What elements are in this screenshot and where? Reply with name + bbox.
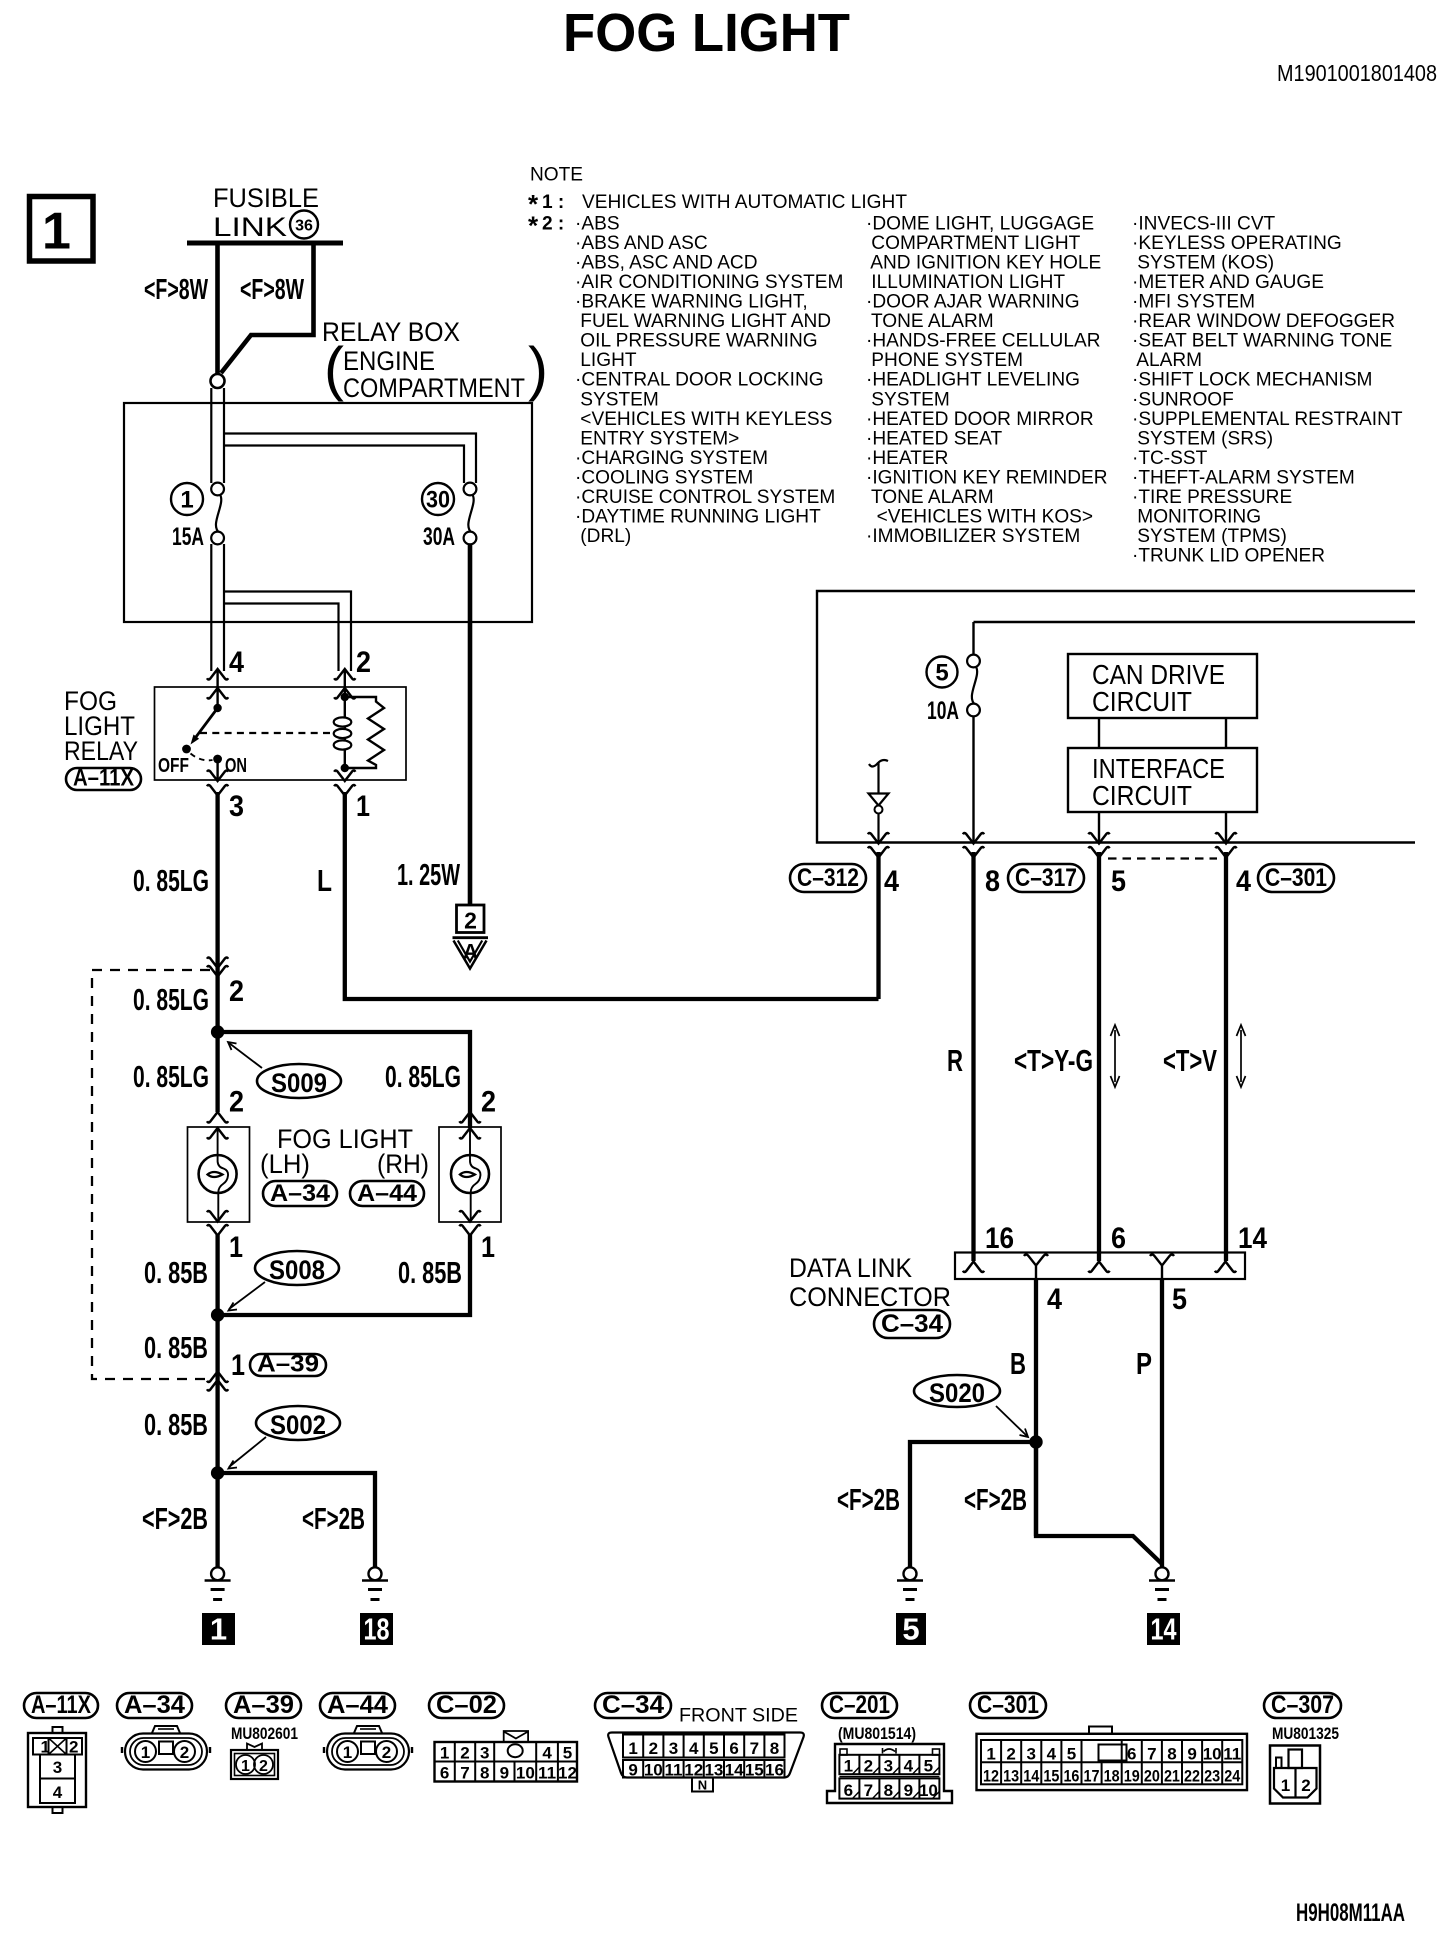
svg-text:·HEATED DOOR MIRROR: ·HEATED DOOR MIRROR xyxy=(866,409,1094,430)
svg-text:LIGHT: LIGHT xyxy=(575,350,637,371)
svg-text:·CHARGING SYSTEM: ·CHARGING SYSTEM xyxy=(575,448,768,469)
DLC terminal 14 xyxy=(1215,1262,1236,1273)
wire V xyxy=(1224,852,1228,1261)
svg-text:1: 1 xyxy=(241,1758,250,1775)
connector pictogram A-39 xyxy=(231,1744,278,1780)
data link connector bar xyxy=(955,1253,1245,1280)
svg-text:COMPARTMENT LIGHT: COMPARTMENT LIGHT xyxy=(866,233,1081,254)
svg-text:VEHICLES WITH AUTOMATIC LIGHT: VEHICLES WITH AUTOMATIC LIGHT xyxy=(582,192,907,213)
svg-text:3: 3 xyxy=(884,1757,893,1776)
circled 30 fuse number xyxy=(422,483,454,515)
svg-text:·COOLING SYSTEM: ·COOLING SYSTEM xyxy=(575,467,753,488)
svg-text:4: 4 xyxy=(689,1739,699,1758)
wire to ground 1 xyxy=(215,1473,219,1567)
svg-text:MU801325: MU801325 xyxy=(1272,1724,1339,1743)
connector circle at relay box entry xyxy=(211,374,225,388)
svg-text:·ABS AND ASC: ·ABS AND ASC xyxy=(575,233,708,254)
svg-text:<T>Y-G: <T>Y-G xyxy=(1014,1043,1093,1078)
svg-text:·DAYTIME RUNNING LIGHT: ·DAYTIME RUNNING LIGHT xyxy=(575,506,821,527)
svg-text:S009: S009 xyxy=(271,1068,327,1098)
note *2 marker xyxy=(528,211,564,241)
circled 1 fuse number xyxy=(171,483,203,515)
svg-text:2: 2 xyxy=(69,1738,78,1757)
svg-text:0. 85B: 0. 85B xyxy=(398,1255,462,1290)
relay coil xyxy=(334,693,352,772)
svg-text:4: 4 xyxy=(53,1783,63,1802)
wire branch to ground 5 xyxy=(910,1442,1036,1567)
svg-text:1: 1 xyxy=(41,1738,50,1757)
svg-text:8: 8 xyxy=(1167,1745,1176,1764)
svg-text:8: 8 xyxy=(770,1739,779,1758)
svg-text:<F>8W: <F>8W xyxy=(240,274,304,306)
svg-text:17: 17 xyxy=(1084,1767,1100,1786)
svg-text:15: 15 xyxy=(745,1761,764,1780)
svg-text:0. 85LG: 0. 85LG xyxy=(133,863,209,898)
svg-text:2: 2 xyxy=(1006,1745,1015,1764)
svg-text:8: 8 xyxy=(985,865,1000,898)
svg-text:9: 9 xyxy=(628,1761,637,1780)
svg-text:*: * xyxy=(528,211,539,241)
connector label C-317 xyxy=(1008,864,1084,892)
note list column 3 xyxy=(1132,214,1403,567)
ground number 5 xyxy=(896,1612,926,1647)
fusible link label xyxy=(213,183,319,242)
svg-text:21: 21 xyxy=(1164,1767,1180,1786)
svg-text:1: 1 xyxy=(42,203,71,261)
svg-text:A–44: A–44 xyxy=(327,1691,388,1719)
wire feed to LH fog light xyxy=(215,1032,219,1112)
svg-text:·SUPPLEMENTAL RESTRAINT: ·SUPPLEMENTAL RESTRAINT xyxy=(1132,409,1403,430)
svg-text:A–44: A–44 xyxy=(357,1180,418,1207)
svg-text:1. 25W: 1. 25W xyxy=(397,857,460,892)
dashed harness boundary A-39 xyxy=(92,970,210,1379)
svg-text:<VEHICLES WITH KOS>: <VEHICLES WITH KOS> xyxy=(866,506,1093,527)
splice S008 ellipse xyxy=(255,1251,339,1285)
svg-text:·INVECS-III CVT: ·INVECS-III CVT xyxy=(1132,214,1276,235)
svg-text:ENTRY SYSTEM>: ENTRY SYSTEM> xyxy=(575,428,739,449)
svg-text:8: 8 xyxy=(480,1764,489,1783)
svg-text:<F>2B: <F>2B xyxy=(142,1501,208,1536)
fusible link bus bar xyxy=(187,241,343,246)
svg-text:0. 85LG: 0. 85LG xyxy=(133,1059,209,1094)
svg-text:6: 6 xyxy=(1111,1222,1126,1255)
svg-text:14: 14 xyxy=(725,1761,744,1780)
splice S009 arrow xyxy=(228,1042,262,1068)
noise suppressor symbol at C-312 xyxy=(869,760,889,842)
RH fog light output chevrons xyxy=(460,1211,481,1236)
svg-text:1: 1 xyxy=(440,1744,449,1763)
note list column 2 xyxy=(866,214,1108,547)
svg-text:ON: ON xyxy=(225,755,247,777)
svg-text:C–301: C–301 xyxy=(977,1691,1039,1719)
svg-text:C–307: C–307 xyxy=(1271,1691,1334,1719)
svg-text:B: B xyxy=(1010,1346,1026,1381)
circled 36 xyxy=(290,211,318,239)
svg-text:4: 4 xyxy=(904,1757,914,1776)
svg-text:N: N xyxy=(698,1778,707,1793)
svg-text:A–34: A–34 xyxy=(124,1691,185,1719)
connector label A-34 bottom xyxy=(117,1693,192,1718)
svg-text:S020: S020 xyxy=(929,1378,985,1408)
svg-text:2: 2 xyxy=(464,908,477,934)
wire from fuse 30 down to page-2 marker xyxy=(468,544,473,905)
ground symbol 5 xyxy=(897,1567,923,1599)
svg-text:4: 4 xyxy=(1047,1745,1057,1764)
ground number 14 xyxy=(1147,1612,1180,1647)
fuse 30 symbol xyxy=(464,483,477,545)
svg-text:16: 16 xyxy=(1063,1767,1079,1786)
svg-text:RELAY: RELAY xyxy=(64,736,138,766)
svg-text:18: 18 xyxy=(364,1612,390,1647)
svg-text:ALARM: ALARM xyxy=(1132,350,1202,371)
svg-text:14: 14 xyxy=(1151,1612,1178,1647)
svg-text:MU802601: MU802601 xyxy=(231,1724,298,1743)
svg-text:1: 1 xyxy=(356,790,370,823)
wire (outlined) from fusible link to fuse 1 xyxy=(211,388,224,671)
svg-text:2: 2 xyxy=(356,646,371,679)
svg-text:15: 15 xyxy=(1043,1767,1059,1786)
svg-text:·METER AND GAUGE: ·METER AND GAUGE xyxy=(1132,272,1324,293)
circled 5 fuse number xyxy=(927,657,958,688)
svg-text:1: 1 xyxy=(180,487,193,514)
ground symbol 18 xyxy=(362,1567,388,1599)
relay switch xyxy=(182,704,222,780)
svg-text:<T>V: <T>V xyxy=(1163,1043,1217,1078)
svg-text:2: 2 xyxy=(1301,1776,1310,1795)
C-312 pin 4 chevrons xyxy=(868,833,889,858)
svg-text:4: 4 xyxy=(1236,865,1251,898)
svg-text:7: 7 xyxy=(1147,1745,1156,1764)
svg-text:·AIR CONDITIONING SYSTEM: ·AIR CONDITIONING SYSTEM xyxy=(575,272,843,293)
interface circuit box xyxy=(1068,748,1257,812)
svg-text:1 :: 1 : xyxy=(542,192,564,213)
page-2 triangle A marker xyxy=(453,938,489,969)
svg-text:FUEL WARNING LIGHT AND: FUEL WARNING LIGHT AND xyxy=(575,311,831,332)
svg-text:·TRUNK LID OPENER: ·TRUNK LID OPENER xyxy=(1132,546,1325,567)
svg-text:SYSTEM (SRS): SYSTEM (SRS) xyxy=(1132,428,1273,449)
wire feed to RH fog light xyxy=(218,1032,470,1128)
svg-text:·TC-SST: ·TC-SST xyxy=(1132,448,1208,469)
svg-text:18: 18 xyxy=(1104,1767,1120,1786)
svg-text:22: 22 xyxy=(1184,1767,1200,1786)
LH fog light input chevrons xyxy=(207,1112,228,1139)
svg-text:L: L xyxy=(317,863,332,898)
svg-text:AND IGNITION KEY HOLE: AND IGNITION KEY HOLE xyxy=(866,253,1101,274)
svg-text:C–312: C–312 xyxy=(797,864,859,892)
svg-text:1: 1 xyxy=(229,1231,243,1264)
connector A-39 pass-through upper xyxy=(207,957,228,976)
svg-text:6: 6 xyxy=(844,1781,853,1800)
connector label A-44 bottom xyxy=(320,1693,395,1718)
wire B from DLC pin 4 xyxy=(1034,1279,1038,1536)
connector label A-39 bottom xyxy=(226,1693,301,1718)
svg-text:5: 5 xyxy=(1172,1283,1187,1316)
svg-text:10: 10 xyxy=(516,1764,535,1783)
connector pictogram C-02 xyxy=(435,1731,578,1783)
svg-text:0. 85B: 0. 85B xyxy=(144,1407,208,1442)
svg-text:A: A xyxy=(463,941,478,964)
svg-text:H9H08M11AA: H9H08M11AA xyxy=(1296,1899,1405,1927)
svg-text:(RH): (RH) xyxy=(377,1149,429,1179)
splice S020 arrow xyxy=(996,1406,1028,1437)
svg-text:C–02: C–02 xyxy=(436,1691,497,1719)
svg-text:10: 10 xyxy=(1203,1745,1222,1764)
relay box label xyxy=(322,317,548,403)
splice S009 ellipse xyxy=(257,1064,341,1098)
svg-text:A–39: A–39 xyxy=(257,1350,319,1377)
RH fog light bulb xyxy=(439,1127,501,1222)
svg-text:0. 85LG: 0. 85LG xyxy=(385,1059,461,1094)
svg-text:MONITORING: MONITORING xyxy=(1132,506,1261,527)
svg-text:·IGNITION KEY REMINDER: ·IGNITION KEY REMINDER xyxy=(866,467,1108,488)
connector label C-307 bottom xyxy=(1264,1693,1341,1718)
svg-text:(MU801514): (MU801514) xyxy=(838,1724,916,1743)
relay pin 1 terminal chevrons xyxy=(334,770,355,795)
svg-text:30A: 30A xyxy=(423,523,455,551)
svg-text:<F>8W: <F>8W xyxy=(144,274,208,306)
connector A-39 pass-through lower xyxy=(207,1372,228,1391)
svg-text:1: 1 xyxy=(481,1231,495,1264)
svg-text:2: 2 xyxy=(382,1743,391,1762)
DLC terminal 4 xyxy=(1024,1255,1048,1280)
svg-text:ENGINE: ENGINE xyxy=(343,346,435,376)
svg-text:20: 20 xyxy=(1144,1767,1160,1786)
relay resistor xyxy=(345,697,384,768)
svg-text:TONE ALARM: TONE ALARM xyxy=(866,311,994,332)
svg-text:5: 5 xyxy=(924,1757,933,1776)
svg-text:6: 6 xyxy=(729,1739,738,1758)
svg-text:(DRL): (DRL) xyxy=(575,526,631,547)
svg-text:7: 7 xyxy=(864,1781,873,1800)
interface output wire right xyxy=(1225,812,1227,842)
svg-text:<F>2B: <F>2B xyxy=(837,1482,900,1517)
connector label C-201 bottom xyxy=(822,1693,897,1718)
connector label A-11X bottom xyxy=(24,1693,98,1718)
connector label A-34 xyxy=(263,1181,337,1206)
svg-text:A–39: A–39 xyxy=(233,1691,294,1719)
svg-text:7: 7 xyxy=(460,1764,469,1783)
svg-text:24: 24 xyxy=(1224,1767,1240,1786)
wire 0.85LG from relay pin 3 xyxy=(215,792,219,1032)
svg-text:2: 2 xyxy=(229,1086,244,1119)
DLC terminal 6 xyxy=(1089,1262,1110,1273)
svg-text:R: R xyxy=(947,1043,963,1078)
svg-text:SYSTEM: SYSTEM xyxy=(575,389,659,410)
svg-text:SYSTEM: SYSTEM xyxy=(866,389,950,410)
svg-text:COMPARTMENT: COMPARTMENT xyxy=(343,373,525,403)
C-317 pin 8 chevrons xyxy=(963,833,984,858)
CAN drive circuit box xyxy=(1068,654,1257,718)
svg-text:5: 5 xyxy=(935,660,948,687)
svg-text:): ) xyxy=(528,335,548,402)
connector label C-301 xyxy=(1258,864,1334,892)
connector label C-312 xyxy=(790,864,866,892)
svg-text:2: 2 xyxy=(481,1086,496,1119)
svg-text:1: 1 xyxy=(1281,1776,1290,1795)
wire (outlined) branch to fuse 30 xyxy=(224,434,476,484)
LH fog light bulb xyxy=(188,1127,250,1222)
svg-text:·TIRE PRESSURE: ·TIRE PRESSURE xyxy=(1132,487,1292,508)
splice S020 ellipse xyxy=(914,1375,1000,1408)
svg-text:(LH): (LH) xyxy=(260,1149,310,1179)
wire Y-G xyxy=(1097,852,1101,1261)
fuse 1 symbol xyxy=(211,483,224,545)
svg-text:·HEATER: ·HEATER xyxy=(866,448,948,469)
svg-text:2: 2 xyxy=(259,1758,268,1775)
svg-text:11: 11 xyxy=(1223,1745,1241,1764)
svg-text:3: 3 xyxy=(480,1744,489,1763)
junction S020 dot xyxy=(1029,1435,1042,1448)
svg-text:C–201: C–201 xyxy=(829,1691,890,1719)
ground number 1 xyxy=(202,1612,235,1647)
svg-text:C–34: C–34 xyxy=(602,1691,664,1719)
svg-text:·SEAT BELT WARNING TONE: ·SEAT BELT WARNING TONE xyxy=(1132,331,1392,352)
connector pictogram A-34 xyxy=(122,1726,210,1770)
svg-text:·DOME LIGHT, LUGGAGE: ·DOME LIGHT, LUGGAGE xyxy=(866,214,1094,235)
svg-text:S008: S008 xyxy=(269,1255,325,1285)
wire L from relay pin 1 xyxy=(345,792,879,999)
svg-text:10A: 10A xyxy=(927,697,959,725)
connector label C-34 xyxy=(874,1310,950,1338)
svg-text:1: 1 xyxy=(231,1349,245,1382)
svg-text:7: 7 xyxy=(750,1739,759,1758)
svg-text:SYSTEM (KOS): SYSTEM (KOS) xyxy=(1132,253,1274,274)
ground number 18 xyxy=(360,1612,393,1647)
svg-text:·REAR WINDOW DEFOGGER: ·REAR WINDOW DEFOGGER xyxy=(1132,311,1395,332)
svg-text:12: 12 xyxy=(558,1764,577,1783)
junction S002 dot xyxy=(211,1466,224,1479)
splice S002 ellipse xyxy=(256,1406,340,1440)
page reference box 1 xyxy=(30,197,94,262)
RH fog light input chevrons xyxy=(460,1112,481,1139)
svg-text:4: 4 xyxy=(542,1744,552,1763)
svg-text:·HANDS-FREE CELLULAR: ·HANDS-FREE CELLULAR xyxy=(866,331,1100,352)
svg-text:0. 85B: 0. 85B xyxy=(144,1255,208,1290)
svg-text:LINK: LINK xyxy=(213,212,287,242)
svg-text:PHONE SYSTEM: PHONE SYSTEM xyxy=(866,350,1023,371)
svg-text:11: 11 xyxy=(538,1764,556,1783)
svg-text:·KEYLESS OPERATING: ·KEYLESS OPERATING xyxy=(1132,233,1342,254)
svg-text:C–317: C–317 xyxy=(1015,864,1077,892)
junction S009 dot xyxy=(211,1025,224,1038)
svg-text:6: 6 xyxy=(440,1764,449,1783)
svg-text:2 :: 2 : xyxy=(542,214,564,235)
connector pictogram C-34 xyxy=(608,1733,804,1793)
svg-text:14: 14 xyxy=(1238,1222,1267,1255)
svg-text:13: 13 xyxy=(1003,1767,1019,1786)
svg-text:CIRCUIT: CIRCUIT xyxy=(1092,780,1192,811)
wire (outlined) branch to relay pin 2 xyxy=(224,592,351,672)
svg-text:16: 16 xyxy=(985,1222,1014,1255)
svg-text:·MFI SYSTEM: ·MFI SYSTEM xyxy=(1132,292,1255,313)
svg-text:·HEATED SEAT: ·HEATED SEAT xyxy=(866,428,1002,449)
splice S002 arrow xyxy=(229,1437,267,1469)
svg-text:·HEADLIGHT LEVELING: ·HEADLIGHT LEVELING xyxy=(866,370,1080,391)
svg-text:·ABS: ·ABS xyxy=(575,214,620,235)
dashed connector link line xyxy=(1108,857,1217,859)
LH fog light output chevrons xyxy=(207,1211,228,1236)
svg-text:1: 1 xyxy=(141,1743,150,1762)
connector label A-44 xyxy=(350,1181,424,1206)
svg-text:·ABS, ASC AND ACD: ·ABS, ASC AND ACD xyxy=(575,253,758,274)
svg-text:·DOOR AJAR WARNING: ·DOOR AJAR WARNING xyxy=(866,292,1080,313)
svg-text:·CRUISE CONTROL SYSTEM: ·CRUISE CONTROL SYSTEM xyxy=(575,487,835,508)
svg-text:·THEFT-ALARM SYSTEM: ·THEFT-ALARM SYSTEM xyxy=(1132,467,1355,488)
svg-text:S002: S002 xyxy=(270,1410,326,1440)
fog light relay label xyxy=(64,686,138,766)
svg-text:1: 1 xyxy=(343,1743,352,1762)
connector pictogram C-201 xyxy=(827,1744,952,1803)
svg-text:5: 5 xyxy=(902,1612,919,1647)
svg-text:OFF: OFF xyxy=(158,755,189,777)
svg-text:16: 16 xyxy=(765,1761,784,1780)
svg-text:·SUNROOF: ·SUNROOF xyxy=(1132,389,1234,410)
relay box engine compartment outline xyxy=(124,403,532,622)
svg-text:·BRAKE WARNING LIGHT,: ·BRAKE WARNING LIGHT, xyxy=(575,292,808,313)
connector pictogram C-307 xyxy=(1270,1746,1320,1804)
svg-text:DATA LINK: DATA LINK xyxy=(789,1253,912,1283)
svg-text:6: 6 xyxy=(1127,1745,1136,1764)
wire 0.85B LH return xyxy=(215,1234,219,1473)
svg-text:<F>2B: <F>2B xyxy=(302,1501,365,1536)
svg-text:14: 14 xyxy=(1023,1767,1039,1786)
svg-text:5: 5 xyxy=(563,1744,572,1763)
svg-text:A–34: A–34 xyxy=(270,1180,331,1207)
C-317 pin 5 chevrons xyxy=(1089,833,1110,858)
svg-text:36: 36 xyxy=(295,218,313,235)
svg-text:SYSTEM (TPMS): SYSTEM (TPMS) xyxy=(1132,526,1287,547)
svg-text:9: 9 xyxy=(904,1781,913,1800)
connector pictogram A-44 xyxy=(324,1726,412,1770)
svg-text:15A: 15A xyxy=(172,523,204,551)
wire fusible link right <F>8W xyxy=(221,243,314,373)
note *1 line xyxy=(528,189,907,219)
svg-text:5: 5 xyxy=(1067,1745,1076,1764)
svg-text:1: 1 xyxy=(986,1745,995,1764)
svg-text:FUSIBLE: FUSIBLE xyxy=(213,183,319,213)
svg-text:3: 3 xyxy=(53,1758,62,1777)
page-2 square marker xyxy=(457,905,485,934)
svg-text:M1901001801408: M1901001801408 xyxy=(1277,60,1437,86)
fuse 5 symbol xyxy=(967,622,980,842)
wire branch to ground 18 xyxy=(218,1473,375,1567)
svg-text:2: 2 xyxy=(649,1739,658,1758)
svg-text:1: 1 xyxy=(844,1757,853,1776)
svg-text:0. 85LG: 0. 85LG xyxy=(133,982,209,1017)
C-301 pin 4 chevrons xyxy=(1216,833,1237,858)
relay pin 4 terminal chevrons xyxy=(207,669,228,708)
svg-text:5: 5 xyxy=(709,1739,718,1758)
svg-text:9: 9 xyxy=(1187,1745,1196,1764)
svg-text:2: 2 xyxy=(864,1757,873,1776)
relay pin 2 terminal chevrons xyxy=(334,669,355,699)
connector label A-39 inline xyxy=(250,1354,326,1376)
svg-text:NOTE: NOTE xyxy=(530,165,583,186)
fog light label xyxy=(260,1124,429,1179)
svg-text:30: 30 xyxy=(426,487,450,514)
svg-text:A–11X: A–11X xyxy=(31,1691,91,1719)
data link connector label xyxy=(789,1253,951,1312)
connector label C-02 bottom xyxy=(429,1693,504,1718)
svg-text:12: 12 xyxy=(983,1767,999,1786)
svg-text:4: 4 xyxy=(884,865,899,898)
svg-text:2: 2 xyxy=(229,975,244,1008)
svg-text:CIRCUIT: CIRCUIT xyxy=(1092,686,1192,717)
svg-text:4: 4 xyxy=(1047,1283,1062,1316)
svg-text:TONE ALARM: TONE ALARM xyxy=(866,487,994,508)
wire 0.85B RH return xyxy=(218,1234,470,1315)
link CAN to interface right xyxy=(1225,718,1227,748)
